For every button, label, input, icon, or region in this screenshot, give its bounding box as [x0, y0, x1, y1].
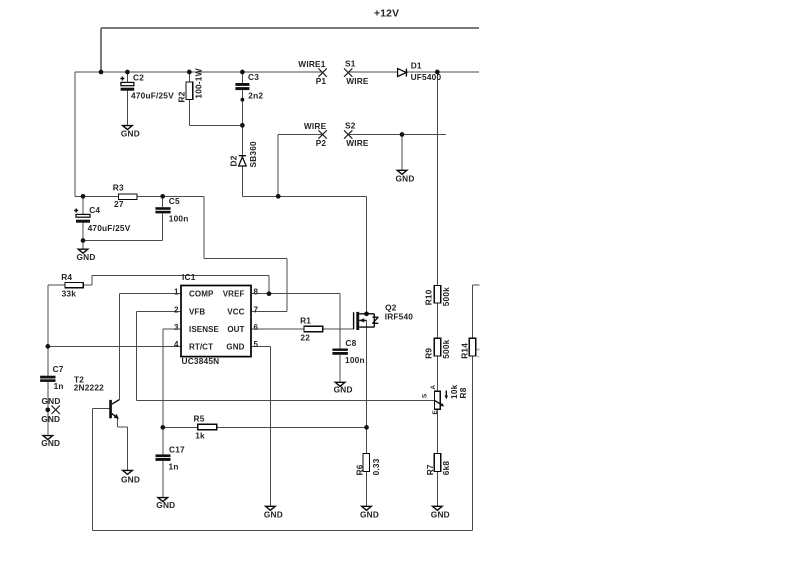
svg-text:2N2222: 2N2222: [74, 383, 104, 393]
svg-text:VCC: VCC: [227, 308, 244, 317]
svg-text:VREF: VREF: [223, 290, 245, 299]
svg-text:GND: GND: [226, 342, 244, 351]
svg-text:6: 6: [254, 323, 259, 332]
svg-text:WIRE1: WIRE1: [298, 59, 325, 69]
svg-text:470uF/25V: 470uF/25V: [88, 223, 131, 233]
svg-text:IRF540: IRF540: [385, 312, 414, 322]
svg-text:S1: S1: [345, 59, 356, 69]
svg-text:1n: 1n: [54, 381, 64, 391]
svg-text:8: 8: [254, 288, 259, 297]
svg-text:C7: C7: [53, 364, 64, 374]
svg-text:5: 5: [254, 340, 259, 349]
svg-text:GND: GND: [121, 475, 140, 485]
svg-text:100-1W: 100-1W: [194, 68, 204, 98]
svg-text:GND: GND: [77, 252, 96, 262]
svg-text:4: 4: [174, 340, 179, 349]
svg-text:R8: R8: [458, 387, 468, 398]
svg-text:C3: C3: [248, 72, 259, 82]
svg-text:R3: R3: [113, 183, 124, 193]
svg-text:R9: R9: [423, 348, 433, 359]
svg-text:GND: GND: [41, 414, 60, 424]
svg-text:ISENSE: ISENSE: [189, 325, 220, 334]
svg-text:SB360: SB360: [248, 141, 258, 168]
svg-text:RT/CT: RT/CT: [189, 342, 213, 351]
svg-text:R5: R5: [194, 413, 205, 423]
svg-text:GND: GND: [121, 129, 140, 139]
svg-text:500k: 500k: [441, 339, 451, 358]
svg-text:VFB: VFB: [189, 308, 205, 317]
svg-text:P1: P1: [316, 76, 327, 86]
svg-text:R7: R7: [425, 464, 435, 475]
svg-text:C4: C4: [89, 205, 100, 215]
svg-text:WIRE: WIRE: [346, 76, 369, 86]
svg-text:P2: P2: [316, 138, 327, 148]
svg-text:C5: C5: [169, 196, 180, 206]
svg-text:GND: GND: [41, 438, 60, 448]
svg-text:IC1: IC1: [182, 272, 196, 282]
svg-text:GND: GND: [156, 500, 175, 510]
svg-text:1k: 1k: [195, 430, 205, 440]
svg-text:7: 7: [254, 305, 259, 314]
svg-text:E: E: [432, 410, 439, 414]
svg-text:100n: 100n: [169, 214, 189, 224]
svg-text:GND: GND: [334, 385, 353, 395]
svg-text:D1: D1: [411, 61, 422, 71]
svg-text:WIRE: WIRE: [304, 121, 327, 131]
svg-text:D2: D2: [229, 155, 239, 166]
svg-text:C8: C8: [345, 338, 356, 348]
svg-text:1n: 1n: [169, 462, 179, 472]
svg-text:R4: R4: [61, 272, 72, 282]
svg-text:22: 22: [300, 332, 310, 342]
svg-text:GND: GND: [431, 509, 450, 519]
svg-text:2: 2: [174, 305, 179, 314]
svg-text:R1: R1: [300, 316, 311, 326]
svg-text:C2: C2: [133, 73, 144, 83]
svg-text:GND: GND: [396, 173, 415, 183]
svg-text:UC3845N: UC3845N: [182, 356, 220, 366]
svg-text:+12V: +12V: [374, 9, 399, 20]
svg-text:A: A: [430, 385, 437, 390]
svg-text:2n2: 2n2: [248, 90, 263, 100]
svg-text:OUT: OUT: [227, 325, 244, 334]
svg-text:COMP: COMP: [189, 290, 214, 299]
svg-text:C17: C17: [169, 444, 185, 454]
svg-text:GND: GND: [264, 509, 283, 519]
svg-text:6k8: 6k8: [441, 461, 451, 476]
svg-text:WIRE: WIRE: [346, 138, 369, 148]
svg-text:S2: S2: [345, 120, 356, 130]
svg-text:R2: R2: [176, 91, 186, 102]
svg-text:R14: R14: [459, 343, 469, 359]
svg-text:470uF/25V: 470uF/25V: [131, 91, 174, 101]
svg-text:1: 1: [174, 288, 179, 297]
svg-text:R6: R6: [354, 464, 364, 475]
svg-text:R10: R10: [423, 289, 433, 305]
svg-text:S: S: [422, 394, 429, 398]
svg-text:500k: 500k: [441, 287, 451, 306]
svg-text:GND: GND: [42, 396, 61, 406]
svg-text:33k: 33k: [62, 289, 77, 299]
svg-text:100n: 100n: [345, 355, 365, 365]
svg-text:3: 3: [174, 323, 179, 332]
svg-text:27: 27: [114, 199, 124, 209]
svg-text:UF5400: UF5400: [411, 72, 442, 82]
svg-text:0.33: 0.33: [371, 458, 381, 475]
svg-text:GND: GND: [360, 509, 379, 519]
